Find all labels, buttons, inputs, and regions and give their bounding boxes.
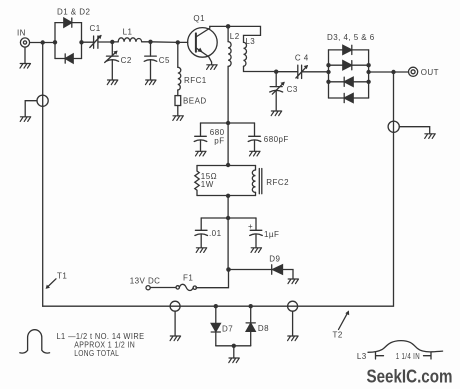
svg-text:L3: L3 [357, 352, 367, 361]
svg-text:L1: L1 [123, 28, 133, 37]
capacitor C5 (to ground) [144, 42, 170, 80]
svg-text:IN: IN [17, 29, 26, 38]
capacitor 680pF (right) [248, 123, 289, 151]
diode D6 (bottom branch, left) [329, 93, 369, 102]
svg-text:680: 680 [210, 128, 225, 137]
node junction L1/C5 [148, 40, 152, 44]
note L1 winding pictogram [20, 330, 50, 353]
wire IN node to D1D2 [30, 42, 55, 44]
ground (D9) [288, 279, 299, 284]
wire D9 node down to fuse corner [196, 270, 229, 288]
svg-text:+: + [248, 222, 253, 231]
svg-text:L2: L2 [230, 32, 240, 41]
node 13V DC supply terminal [130, 276, 161, 290]
wire fuse to 13V terminal [150, 287, 176, 289]
wire Q1 collector to L2 top [210, 25, 228, 27]
capacitor feedthrough (bottom rail right) [288, 301, 298, 336]
node IN input terminal J1 [17, 29, 30, 48]
inductor L2 [228, 26, 240, 123]
wire left vertical T1 line [42, 43, 44, 307]
svg-text:13V DC: 13V DC [130, 276, 161, 285]
capacitor C1 (series trimmer) [82, 24, 113, 48]
wire box bottom to .01 line [227, 196, 229, 219]
node junction D1D2 right [79, 40, 83, 44]
svg-text:OUT: OUT [421, 68, 439, 77]
inductor RFC2 [252, 166, 289, 196]
capacitor 1uF electrolytic [248, 218, 279, 248]
capacitor 680pF (left) [194, 123, 224, 151]
node junction OUT/T2 [391, 70, 395, 74]
svg-text:C5: C5 [159, 56, 170, 65]
svg-text:RFC1: RFC1 [184, 76, 207, 85]
svg-text:T1: T1 [57, 271, 67, 280]
node junction D7 [214, 304, 218, 308]
ground (1uF) [251, 248, 262, 253]
svg-text:D1 & D2: D1 & D2 [57, 8, 90, 17]
node OUT terminal [409, 67, 439, 77]
svg-text:pF: pF [214, 137, 224, 146]
svg-text:D9: D9 [269, 254, 280, 263]
capacitor feedthrough (left, on T1 line) [25, 95, 48, 117]
node junction 680pF line [226, 121, 230, 125]
wire 680pF tie line [201, 122, 255, 124]
wire hook from L2 top to L3 top [228, 26, 260, 42]
ferrite bead BEAD [175, 96, 207, 116]
node junction D9 [226, 267, 231, 272]
fuse F1 [176, 273, 197, 290]
capacitor feedthrough (bottom rail left) [170, 301, 180, 336]
svg-text:680pF: 680pF [264, 135, 289, 144]
ground (C5) [146, 80, 157, 85]
node junction RFC2 box top [226, 163, 230, 167]
svg-text:F1: F1 [183, 273, 193, 282]
capacitor C2 (trimmer to ground) [105, 42, 132, 80]
svg-text:1µF: 1µF [264, 230, 279, 239]
note L3 length drawing [357, 341, 443, 361]
capacitor .01 [195, 218, 222, 248]
ground (RFC1/BEAD) [173, 116, 184, 121]
diode D5 (third branch, left) [329, 77, 369, 86]
node junction at x=42.7 top [41, 40, 45, 44]
diode D3 (top branch, right) [329, 45, 369, 54]
node junction L2 top [226, 24, 231, 29]
wire D7/D8 bottom tie [216, 345, 251, 347]
node junction Q1 base / RFC1 [176, 40, 180, 44]
wire bridge left bus [328, 50, 330, 98]
ground (left feedthrough) [20, 117, 31, 122]
wire .01 tie line [201, 217, 256, 219]
ground (680pF right) [250, 151, 261, 156]
ground (Q1 emitter) [207, 65, 218, 70]
svg-text:C1: C1 [90, 24, 101, 33]
diode D8 (cathode up) [246, 306, 269, 346]
ground (below IN connector) [20, 47, 31, 68]
svg-text:D7: D7 [222, 324, 233, 333]
ground (C2) [107, 80, 118, 85]
svg-text:C2: C2 [121, 56, 132, 65]
svg-text:LONG TOTAL: LONG TOTAL [74, 349, 119, 358]
wire right vertical T2 line [43, 72, 394, 306]
capacitor feedthrough (right, on T2 line) [388, 121, 430, 134]
ground (C3) [271, 111, 282, 116]
svg-text:RFC2: RFC2 [266, 178, 289, 187]
diode D2 (bottom branch, pointing left) [55, 54, 82, 63]
transistor Q1 [188, 14, 218, 65]
svg-text:BEAD: BEAD [183, 96, 207, 105]
ground (.01) [196, 248, 207, 253]
node junctions on bridge buses [326, 63, 330, 67]
node junction .01 line [226, 216, 230, 220]
svg-text:D3, 4, 5 & 6: D3, 4, 5 & 6 [327, 33, 375, 42]
diode D4 (second branch, right) [329, 61, 369, 70]
inductor RFC1 [178, 42, 207, 95]
wire bridge to OUT [369, 71, 409, 73]
diode D9 (cathode left) [229, 254, 294, 279]
node junction RFC2 box bottom [226, 194, 230, 198]
capacitor C3 (trimmer to ground) [270, 72, 298, 111]
inductor L1 [112, 28, 150, 42]
label T2 with arrow [333, 310, 350, 339]
svg-text:Q1: Q1 [193, 14, 205, 23]
node junction at D1D2 left [53, 40, 57, 44]
wire bridge right bus [368, 50, 370, 98]
diode D7 (cathode down) [211, 306, 233, 346]
node junction D8 [249, 304, 253, 308]
label T1 with arrow [46, 271, 68, 289]
ground (right feedthrough) [425, 134, 436, 139]
wire C5 node to Q1 base [151, 41, 188, 44]
diode D1 (top branch, pointing right) [55, 8, 90, 28]
svg-text:SeekIC.com: SeekIC.com [367, 366, 453, 387]
svg-text:.01: .01 [209, 229, 222, 238]
ground (D7/D8) [233, 346, 235, 358]
inductor L3 [244, 37, 277, 72]
svg-text:C 4: C 4 [295, 53, 309, 62]
svg-text:T2: T2 [333, 331, 343, 340]
ground (bottom-right feedthrough) [288, 336, 299, 341]
node junction C3/C4 [274, 70, 278, 74]
svg-text:1 1/4 IN: 1 1/4 IN [396, 352, 420, 361]
ground (680pF left) [196, 151, 207, 156]
svg-text:1W: 1W [201, 180, 214, 189]
wire main vertical to D9 node [227, 218, 229, 270]
svg-text:C3: C3 [287, 85, 298, 94]
node junction D7/D8 ground [232, 344, 236, 348]
svg-text:D8: D8 [258, 324, 269, 333]
node junction C1/C2/L1 [110, 40, 114, 44]
ground (bottom-left feedthrough) [170, 336, 181, 341]
wire D1D2 side verticals [55, 23, 82, 59]
note text L1 wire spec [57, 332, 145, 358]
wire main vertical to RFC2 box [227, 123, 229, 166]
capacitor C4 (series trimmer) [276, 53, 328, 78]
resistor 15 ohm 1W [195, 166, 256, 196]
